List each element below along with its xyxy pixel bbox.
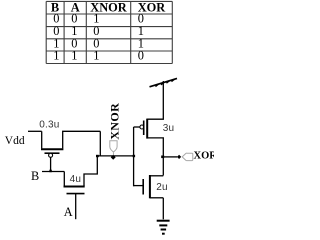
junction dot XNOR wire at inverter gate — [133, 155, 136, 157]
truth table data rows — [53, 12, 144, 63]
svg-text:0: 0 — [138, 49, 144, 63]
svg-text:XNOR: XNOR — [108, 103, 122, 140]
svg-text:3u: 3u — [163, 123, 175, 134]
ground symbol — [157, 221, 170, 234]
power Vdd bar symbol (hatched slant) — [150, 78, 178, 86]
transistor M1 PMOS 0.3u (horizontal, source left / drain right, gate below with bubble) — [41, 131, 100, 157]
truth table grid — [46, 1, 172, 63]
truth table header row: B A XNOR XOR — [51, 0, 166, 14]
wire Vdd rail to M1 source — [28, 130, 42, 132]
svg-text:XOR: XOR — [194, 151, 215, 162]
svg-text:B: B — [31, 169, 39, 183]
wire XOR output node — [163, 156, 177, 158]
wire M2 drain up to XNOR node — [84, 156, 97, 186]
port XNOR (pentagon pointing down) — [110, 141, 117, 152]
wire M1 drain down to XNOR node — [99, 131, 101, 156]
junction diamond at XNOR node — [111, 155, 116, 160]
svg-text:A: A — [64, 205, 73, 219]
svg-text:2u: 2u — [156, 182, 168, 193]
port XOR (pentagon pointing left) — [182, 153, 193, 161]
transistor M4 NMOS 2u (vertical, gate left) — [134, 157, 164, 198]
transistor M3 PMOS 3u (vertical, gate left with bubble) — [134, 81, 164, 157]
svg-text:4u: 4u — [70, 174, 82, 185]
svg-text:0.3u: 0.3u — [39, 120, 59, 131]
transistor M2 NMOS 4u (horizontal, gate below) — [64, 172, 85, 194]
svg-text:1: 1 — [53, 49, 59, 63]
wire M1 gate bubble down to node B — [50, 158, 52, 172]
junction dot at XOR output tap — [161, 156, 164, 159]
junction dot XNOR wire left — [96, 155, 99, 157]
svg-text:1: 1 — [93, 49, 99, 63]
svg-text:Vdd: Vdd — [5, 135, 25, 147]
svg-text:1: 1 — [71, 49, 77, 63]
junction dot at node B — [49, 170, 51, 173]
wire inverter gate vertical (M3 gate to M4 gate) — [133, 127, 135, 186]
wire XNOR net to inverter gate — [97, 155, 133, 157]
wire M4 source down to ground — [162, 198, 164, 220]
wire node B to M2 source — [42, 171, 64, 173]
port XNOR stem — [112, 152, 114, 155]
wire M2 gate down to input A — [75, 194, 77, 220]
junction diamond at XOR node — [177, 155, 181, 159]
